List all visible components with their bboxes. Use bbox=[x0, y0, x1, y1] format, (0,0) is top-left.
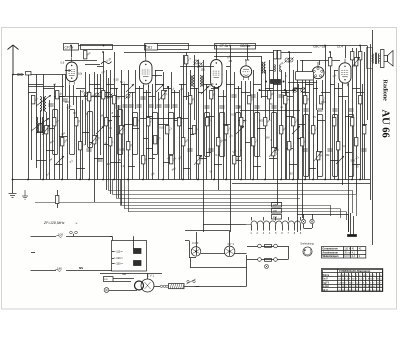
wire link h21 bbox=[163, 88, 171, 90]
wire vx7 bbox=[152, 84, 154, 180]
svg-text:CL4: CL4 bbox=[337, 45, 343, 49]
wire link h47 bbox=[352, 88, 360, 90]
trimmer CT2 bbox=[95, 93, 99, 97]
coil can K15 bbox=[333, 115, 338, 177]
resistor R31 bbox=[206, 118, 209, 126]
resistor R36 bbox=[240, 118, 243, 126]
wire v51 bbox=[273, 50, 275, 180]
wire link h55 bbox=[148, 158, 155, 160]
wire link h4 bbox=[28, 84, 43, 86]
switch mains bbox=[187, 280, 189, 282]
trimmer CT8 bbox=[126, 94, 130, 98]
wire link h68 bbox=[89, 142, 94, 144]
dial scale box bbox=[296, 72, 314, 81]
trimmer CT4 bbox=[198, 63, 202, 67]
svg-text:150: 150 bbox=[201, 68, 206, 72]
coil can K4 bbox=[118, 110, 123, 155]
wire v25 bbox=[135, 70, 137, 109]
wire linkx1 bbox=[104, 120, 112, 122]
node n21 bbox=[312, 179, 314, 181]
wire vx19 bbox=[286, 90, 288, 180]
svg-text:500: 500 bbox=[350, 158, 355, 162]
wire link h36 bbox=[273, 84, 281, 86]
svg-text:0,2: 0,2 bbox=[121, 164, 125, 168]
wire bottom right up bbox=[246, 255, 248, 286]
wire v73 bbox=[364, 52, 366, 180]
resistor R13 bbox=[105, 118, 108, 126]
wire main ground bus bbox=[12, 179, 370, 181]
svg-text:AU 66: AU 66 bbox=[380, 110, 391, 138]
node n8 bbox=[127, 179, 129, 181]
wire v1 bbox=[28, 75, 30, 180]
svg-text:0,5: 0,5 bbox=[177, 116, 181, 120]
wire bus b6 bbox=[120, 205, 330, 207]
wire bend rb4 bbox=[346, 212, 348, 221]
resistor R4 bbox=[53, 118, 56, 126]
resistor R25 bbox=[178, 118, 181, 126]
wire v14 bbox=[89, 74, 91, 180]
resistor R27 bbox=[185, 56, 188, 64]
wire heater H1 left bbox=[31, 236, 57, 238]
capacitor C13 bbox=[235, 106, 240, 108]
tube V5 magic eye CBC bbox=[312, 62, 324, 79]
lamp F3 bbox=[265, 265, 269, 269]
potentiometer P6 bbox=[314, 151, 322, 161]
wire link h58 bbox=[198, 158, 207, 160]
wire link h59 bbox=[214, 164, 222, 166]
svg-text:Uk V: Uk V bbox=[323, 290, 329, 292]
capacitor C28 bbox=[361, 149, 366, 151]
wire bus b1 bbox=[232, 183, 370, 185]
wire v70 bbox=[352, 48, 354, 180]
wire link h50 bbox=[54, 164, 62, 166]
tube V6 CL4 bbox=[339, 59, 351, 86]
node d2 bbox=[283, 81, 285, 83]
wire v55 bbox=[289, 52, 291, 180]
node n34 bbox=[102, 51, 104, 53]
resistor R32 bbox=[210, 91, 213, 99]
wire v6 bbox=[54, 84, 56, 180]
switch arrow sw3 bbox=[201, 86, 209, 94]
wire v10 bbox=[73, 85, 75, 105]
wire v23 bbox=[121, 70, 123, 205]
wire tube2 grid bbox=[152, 75, 162, 77]
socket S1 bbox=[191, 247, 201, 257]
socket view S2 bbox=[303, 247, 312, 256]
capacitor C8 bbox=[156, 105, 161, 107]
svg-text:220: 220 bbox=[273, 204, 278, 207]
wire seg h66 bbox=[180, 66, 214, 68]
resistor R11 bbox=[93, 136, 96, 144]
wire riser r6 bbox=[128, 180, 130, 212]
wire v47 bbox=[253, 70, 255, 180]
wire link h62 bbox=[269, 158, 277, 160]
resistor R35 bbox=[233, 156, 236, 164]
label tag 220 a bbox=[272, 203, 282, 208]
capacitor C6 bbox=[136, 105, 141, 107]
node d1 bbox=[265, 81, 267, 83]
wire seg h82 bbox=[288, 82, 317, 84]
wire seg h110 bbox=[240, 110, 300, 112]
resistor R42 bbox=[280, 126, 283, 134]
resistor R60 bbox=[351, 52, 354, 60]
wire v32 bbox=[183, 55, 185, 180]
wire linkx4 bbox=[132, 128, 139, 130]
wire link h38 bbox=[285, 96, 293, 98]
wire linkx26 bbox=[345, 152, 352, 154]
node n36 bbox=[329, 51, 331, 53]
wire heater H1 right bbox=[66, 236, 112, 238]
capacitor Ca1 bbox=[17, 73, 19, 75]
wire linkx14 bbox=[298, 124, 305, 126]
label tag 220 b bbox=[272, 209, 282, 214]
wire link h32 bbox=[241, 92, 250, 94]
svg-text:0,5: 0,5 bbox=[231, 113, 235, 117]
resistor R59 bbox=[329, 58, 332, 66]
label tube V1 CF3N bbox=[64, 44, 79, 51]
wire link h45 bbox=[334, 88, 342, 90]
switch arrow sw7 bbox=[156, 84, 164, 92]
resistor R17 bbox=[127, 142, 130, 150]
table consumption bbox=[322, 247, 366, 259]
wire linkx6 bbox=[158, 124, 168, 126]
wire V5 anode bbox=[319, 60, 321, 65]
wire v7 bbox=[62, 75, 64, 180]
resistor R48 bbox=[312, 126, 315, 134]
svg-text:Skalenlampen: Skalenlampen bbox=[322, 255, 339, 258]
wire conv out bbox=[154, 286, 160, 288]
coil can K9 bbox=[220, 113, 225, 157]
capacitor C21 bbox=[140, 97, 145, 99]
svg-text:= 150 =: = 150 = bbox=[114, 262, 123, 266]
wire v8 bbox=[65, 75, 67, 97]
wire link h31 bbox=[234, 88, 241, 90]
wire v57 bbox=[297, 60, 299, 232]
switch arrow sw8 bbox=[96, 126, 104, 134]
wire seg h96 bbox=[60, 96, 117, 98]
wire V2 anode bbox=[145, 46, 147, 58]
switch arrow sw5 bbox=[292, 126, 300, 134]
svg-text:Gesamtstrom: Gesamtstrom bbox=[322, 248, 337, 251]
wire linkx25 bbox=[286, 148, 293, 150]
svg-text:≈: ≈ bbox=[76, 222, 78, 226]
node ant bbox=[12, 74, 14, 76]
resistor R19 bbox=[142, 156, 145, 164]
capacitor C18 bbox=[332, 109, 337, 111]
node n33 bbox=[359, 45, 361, 47]
wire link h18 bbox=[143, 92, 151, 94]
wire vx2 bbox=[116, 88, 118, 180]
speaker LS1 bbox=[381, 50, 394, 68]
wire link h78 bbox=[334, 70, 338, 72]
wire link h67 bbox=[46, 150, 54, 152]
resistor Rb under bus bbox=[56, 196, 59, 204]
label tube V2 CB1 bbox=[145, 44, 158, 51]
wire v44 bbox=[241, 81, 243, 180]
mains plug box bbox=[104, 277, 114, 282]
wire link h69 bbox=[143, 138, 148, 140]
svg-text:2x2: 2x2 bbox=[273, 216, 278, 219]
resistor R9 bbox=[84, 51, 87, 59]
trimmer CT6 bbox=[289, 58, 293, 62]
node n22 bbox=[324, 179, 326, 181]
capacitor C sine pickup bbox=[70, 231, 73, 234]
svg-text:Anodenstrom: Anodenstrom bbox=[322, 251, 338, 254]
wire linkx2 bbox=[112, 116, 120, 118]
svg-text:10k: 10k bbox=[78, 71, 83, 75]
svg-text:1M: 1M bbox=[228, 59, 232, 63]
transformer IF black core bbox=[271, 80, 281, 84]
svg-text:CB1: CB1 bbox=[146, 46, 153, 50]
svg-text:110 W: 110 W bbox=[344, 249, 351, 251]
wire link h29 bbox=[218, 96, 226, 98]
node n17 bbox=[264, 179, 266, 181]
coil can K8 bbox=[205, 113, 210, 157]
wire v9 bbox=[69, 85, 71, 109]
potentiometer vol bbox=[293, 88, 297, 92]
wire linkx5 bbox=[146, 116, 152, 118]
svg-text:C V 1: C V 1 bbox=[147, 274, 154, 278]
wire v3 bbox=[36, 75, 38, 169]
wire link h9 bbox=[89, 84, 100, 86]
wire link h77 bbox=[269, 70, 273, 72]
wire vx27 bbox=[67, 104, 69, 180]
wire linkx10 bbox=[223, 124, 230, 126]
wire v43 bbox=[234, 72, 236, 180]
resistor R16 bbox=[120, 126, 123, 134]
switch arrow sw6 bbox=[336, 156, 344, 164]
wire v37 bbox=[203, 60, 205, 232]
wire link h37 bbox=[281, 92, 289, 94]
wire link h14 bbox=[114, 96, 125, 98]
resistor R52 bbox=[337, 142, 340, 150]
wire V3 anode bbox=[216, 46, 218, 58]
svg-text:C Y 1: C Y 1 bbox=[228, 242, 235, 246]
wire v31 bbox=[179, 90, 181, 180]
coil can K12 bbox=[272, 113, 277, 151]
svg-text:C F 3: C F 3 bbox=[192, 241, 199, 245]
mains lamp bbox=[104, 288, 109, 293]
wire riser r1 bbox=[108, 180, 110, 191]
wire link h61 bbox=[253, 166, 261, 168]
node n29 bbox=[215, 45, 217, 47]
potentiometer P3 bbox=[159, 90, 167, 100]
resistor R12 bbox=[102, 91, 105, 99]
wire vx18 bbox=[257, 92, 259, 180]
wire linkx15 bbox=[317, 120, 325, 122]
node n3 bbox=[61, 179, 63, 181]
resistor R15 bbox=[113, 96, 116, 104]
svg-text:Röhre: Röhre bbox=[323, 275, 330, 277]
wire antenna to coil bbox=[31, 74, 66, 76]
coil can K7 bbox=[169, 113, 174, 155]
resistor R22 bbox=[162, 91, 165, 99]
wire link h56 bbox=[163, 162, 171, 164]
wire bundle drop A bbox=[350, 213, 352, 235]
wire v56 bbox=[293, 70, 295, 180]
wire linkx22 bbox=[104, 144, 110, 146]
potentiometer P8 bbox=[117, 125, 125, 135]
label UKW tick bbox=[31, 252, 35, 254]
wire link h52 bbox=[94, 158, 103, 160]
resistor R44 bbox=[288, 142, 291, 150]
svg-text:NS: NS bbox=[79, 266, 83, 270]
wire comb left bbox=[203, 224, 246, 226]
resistor R41 bbox=[272, 148, 275, 156]
wire v41 bbox=[226, 70, 228, 180]
wire v16 bbox=[97, 74, 99, 180]
potentiometer P4 bbox=[194, 155, 202, 165]
wire link h24 bbox=[183, 96, 190, 98]
wire link h72 bbox=[297, 138, 302, 140]
coil can K5 bbox=[133, 113, 138, 155]
node n12 bbox=[197, 179, 199, 181]
wire vx26 bbox=[59, 96, 61, 180]
wire vx9 bbox=[168, 86, 170, 180]
resistor R58 bbox=[278, 51, 281, 59]
wire linkx9 bbox=[206, 116, 214, 118]
coil L3 IF bbox=[262, 62, 263, 73]
ground G1 bbox=[9, 194, 17, 198]
node n5 bbox=[88, 179, 90, 181]
capacitor C7 bbox=[148, 105, 153, 107]
wire V6 anode bbox=[345, 46, 347, 59]
svg-text:0,2: 0,2 bbox=[342, 144, 346, 148]
node n11 bbox=[182, 179, 184, 181]
resistor R1 bbox=[32, 96, 35, 104]
wire link h17 bbox=[135, 88, 143, 90]
wire v22 bbox=[118, 105, 120, 198]
wire vx28 bbox=[82, 100, 84, 180]
svg-text:CBC1a: CBC1a bbox=[240, 44, 251, 48]
wire v19 bbox=[106, 70, 108, 190]
resistor R37 bbox=[248, 96, 251, 104]
tube V2 CB1 bbox=[140, 57, 152, 87]
svg-text:0,05: 0,05 bbox=[159, 125, 165, 129]
wire link h46 bbox=[338, 96, 348, 98]
svg-text:50k: 50k bbox=[325, 153, 330, 157]
coil comb heater chain bbox=[246, 221, 301, 225]
svg-text:0,1: 0,1 bbox=[73, 111, 77, 115]
wire vx14 bbox=[206, 84, 208, 180]
trimmer CT7 bbox=[108, 94, 112, 98]
wire v67 bbox=[338, 83, 340, 180]
resistor R28 bbox=[189, 96, 192, 104]
svg-text:0,05: 0,05 bbox=[321, 100, 327, 104]
wire link h10 bbox=[94, 88, 103, 90]
wire link h23 bbox=[179, 84, 186, 86]
node n32 bbox=[324, 45, 326, 47]
wire v50 bbox=[269, 60, 271, 120]
wire link h12 bbox=[106, 84, 114, 86]
tube V3 CF7 bbox=[211, 56, 222, 91]
wire vx5 bbox=[139, 86, 141, 180]
wire bus b5 bbox=[35, 202, 282, 204]
wire v63 bbox=[322, 80, 324, 110]
wire link h40 bbox=[302, 92, 309, 94]
node n20 bbox=[304, 179, 306, 181]
wire v64 bbox=[325, 46, 327, 180]
wire bus b4 bbox=[116, 198, 300, 200]
coil can K14 bbox=[318, 115, 323, 177]
wire v2 bbox=[31, 95, 33, 160]
wire v60 bbox=[309, 80, 311, 180]
wire link h33 bbox=[253, 84, 261, 86]
svg-text:0,05: 0,05 bbox=[119, 148, 125, 152]
wire vx23 bbox=[362, 84, 364, 180]
wire link h42 bbox=[313, 88, 318, 90]
wire linkx16 bbox=[345, 116, 352, 118]
wire link h25 bbox=[190, 88, 198, 90]
wire drop right bbox=[184, 286, 247, 288]
wire link h1 bbox=[65, 60, 80, 62]
resistor R53 bbox=[351, 118, 354, 126]
resistor R54 bbox=[355, 138, 358, 146]
wire link h3 bbox=[85, 64, 100, 66]
wire link h75 bbox=[155, 70, 163, 72]
resistor R46 bbox=[301, 138, 304, 146]
wire linkx24 bbox=[206, 152, 211, 154]
wire v65 bbox=[330, 52, 332, 180]
switch curly S osc bbox=[101, 62, 112, 65]
wire psu left bbox=[189, 241, 191, 258]
wire vx8 bbox=[158, 92, 160, 180]
wire link h66 bbox=[352, 164, 360, 166]
wire v61 bbox=[313, 80, 315, 180]
wire v17 bbox=[100, 74, 102, 155]
svg-text:300: 300 bbox=[64, 100, 69, 104]
wire fuse left bbox=[247, 246, 258, 248]
wire v33 bbox=[186, 52, 188, 100]
node n23 bbox=[337, 179, 339, 181]
wire v34 bbox=[190, 70, 192, 180]
capacitor C9 bbox=[164, 105, 169, 107]
resistor R26 bbox=[182, 138, 185, 146]
capacitor C26 bbox=[302, 149, 307, 151]
node d3 bbox=[259, 89, 261, 91]
node n9 bbox=[142, 179, 144, 181]
svg-text:Ua V: Ua V bbox=[323, 279, 329, 281]
wire lamp drop bbox=[303, 224, 305, 228]
potentiometer tone bbox=[301, 88, 305, 92]
wire link h49 bbox=[36, 160, 46, 162]
wire riser r5 bbox=[124, 180, 126, 209]
wire conv top feed bbox=[100, 273, 162, 275]
resistor R7 bbox=[75, 118, 78, 126]
wire linkx19 bbox=[49, 128, 54, 130]
svg-text:500: 500 bbox=[245, 58, 250, 62]
wire v13 bbox=[85, 72, 87, 145]
node n31 bbox=[247, 45, 249, 47]
wire link h6 bbox=[43, 88, 54, 90]
resistor R62 bbox=[359, 52, 362, 60]
ground G2 bbox=[22, 190, 28, 199]
resistor R47 bbox=[304, 96, 307, 104]
shield box stage2 bbox=[155, 44, 189, 50]
wire v71 bbox=[356, 48, 358, 194]
coil can K3 bbox=[88, 112, 93, 148]
wire bus b3 bbox=[112, 194, 356, 196]
wire link h73 bbox=[65, 70, 71, 72]
resistor R5 bbox=[56, 91, 59, 99]
wire bend rb3 bbox=[340, 209, 342, 219]
resistor R30 bbox=[197, 156, 200, 164]
border title separator bbox=[372, 30, 374, 245]
coil can K16 bbox=[349, 115, 354, 177]
wire link h5 bbox=[28, 92, 36, 94]
resistor R50 bbox=[320, 96, 323, 104]
ballast beads bbox=[160, 285, 162, 287]
